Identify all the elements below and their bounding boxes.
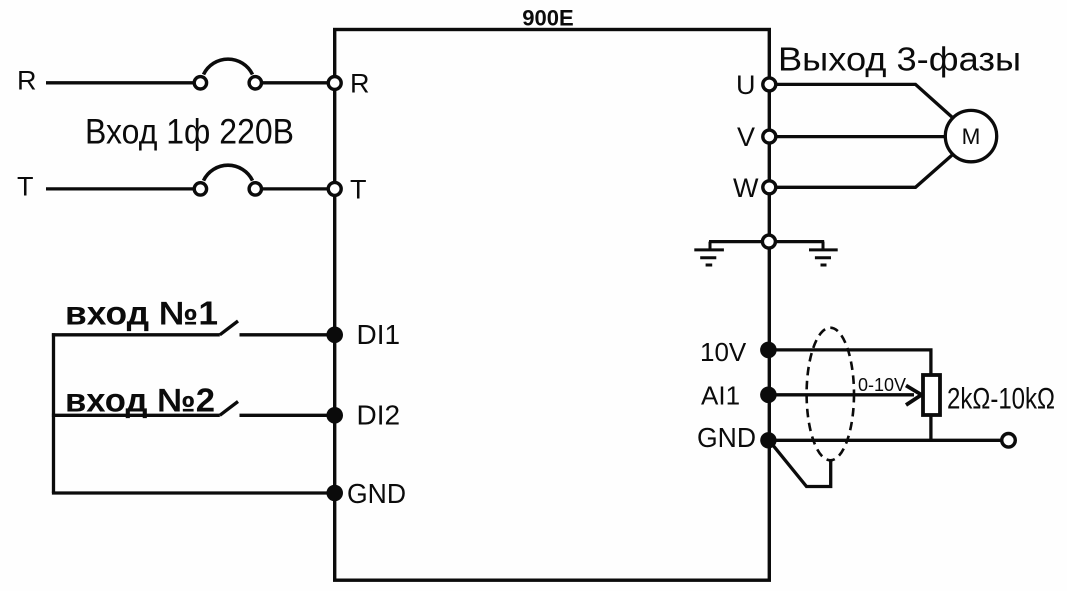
shield ellipse (dashed cable screen)	[807, 328, 854, 461]
svg-text:вход №2: вход №2	[65, 382, 215, 419]
breaker QF1 pole T: right contact circle	[249, 183, 261, 195]
terminal DI2 (filled dot)	[326, 407, 343, 424]
terminal T (open circle on box edge)	[328, 182, 341, 195]
svg-text:T: T	[350, 175, 367, 205]
wire DI1 right segment	[240, 333, 335, 336]
terminal AI1 (filled dot)	[760, 387, 777, 404]
wire DI1 left segment	[52, 333, 220, 336]
svg-text:900E: 900E	[522, 6, 573, 31]
breaker QF1 pole T: left contact circle	[194, 183, 206, 195]
wire breaker to terminal T	[262, 187, 329, 190]
breaker QF1 pole R: right contact circle	[249, 77, 261, 89]
svg-text:AI1: AI1	[701, 381, 740, 411]
ground symbol right	[809, 242, 838, 265]
wire 10V to potentiometer top	[775, 350, 931, 376]
breaker QF1 pole R: arc	[204, 59, 253, 74]
wire PE right	[776, 240, 824, 243]
svg-text:вход №1: вход №1	[65, 295, 218, 332]
ground symbol left	[694, 242, 724, 265]
wire U to motor	[776, 84, 953, 118]
svg-text:R: R	[17, 66, 37, 96]
wire potentiometer bottom lead	[929, 415, 932, 440]
svg-text:GND: GND	[697, 422, 756, 453]
switch S1 blade	[220, 321, 238, 335]
terminal external (open circle)	[1002, 434, 1016, 448]
switch S2 blade	[220, 402, 238, 416]
wire W to motor	[776, 154, 953, 187]
terminal GND right (filled dot)	[760, 432, 776, 448]
wire GND left segment	[52, 491, 334, 494]
terminal W (open circle on box edge)	[763, 181, 776, 194]
svg-text:U: U	[736, 70, 756, 100]
svg-text:10V: 10V	[700, 337, 747, 367]
arrowhead wiper	[906, 386, 922, 406]
potentiometer RP1 body	[923, 375, 940, 415]
terminal V (open circle on box edge)	[763, 130, 776, 143]
svg-text:M: M	[962, 124, 981, 149]
svg-text:DI2: DI2	[357, 400, 401, 431]
svg-text:Выход 3-фазы: Выход 3-фазы	[778, 42, 1021, 79]
VFD box U1 (900E inverter outline)	[335, 30, 770, 581]
wire DI2 left segment	[52, 414, 220, 417]
svg-text:R: R	[350, 69, 370, 99]
wire GND to external terminal	[775, 439, 1002, 442]
terminal DI1 (filled dot)	[326, 327, 343, 344]
svg-text:GND: GND	[347, 478, 406, 509]
motor M1 circle	[945, 110, 996, 161]
terminal 10V (filled dot)	[760, 342, 777, 359]
terminal GND left (filled dot)	[326, 485, 343, 502]
svg-text:W: W	[733, 173, 759, 203]
svg-text:DI1: DI1	[357, 319, 401, 350]
wire R lead	[46, 81, 194, 84]
terminal PE (open circle on box edge)	[762, 235, 775, 248]
terminal U (open circle on box edge)	[763, 78, 776, 91]
wire left bus vertical	[52, 333, 55, 493]
wire shield drain	[771, 443, 831, 487]
terminal R (open circle on box edge)	[328, 77, 341, 90]
wire breaker to terminal R	[262, 81, 329, 84]
svg-text:Вход 1ф 220В: Вход 1ф 220В	[85, 113, 294, 152]
wire AI1 to potentiometer wiper	[775, 393, 914, 396]
svg-text:0-10V: 0-10V	[858, 375, 906, 395]
svg-text:T: T	[17, 172, 34, 202]
svg-text:2kΩ-10kΩ: 2kΩ-10kΩ	[947, 383, 1055, 416]
wire PE left	[709, 240, 762, 243]
breaker QF1 pole R: left contact circle	[194, 77, 206, 89]
wire T lead	[46, 187, 194, 190]
wire DI2 right segment	[240, 414, 335, 417]
svg-text:V: V	[737, 122, 755, 152]
breaker QF1 pole T: arc	[204, 165, 253, 180]
wire V to motor	[776, 135, 945, 138]
